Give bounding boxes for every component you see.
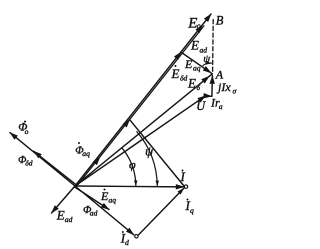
arc psi at vertex A [203, 63, 211, 66]
arrowhead B tip [204, 12, 214, 22]
arrowhead Phi_aq tip [93, 155, 103, 165]
svg-text:aq: aq [193, 64, 201, 73]
wire Phi_deltad parallel stroke [34, 151, 76, 184]
arrowhead jIx sigma tip [210, 75, 216, 84]
svg-text:a: a [219, 102, 223, 111]
arc phi angle [122, 148, 136, 185]
arrowhead Phi_ad / E_aq tip [101, 203, 111, 212]
arrowhead psi arc end [155, 181, 159, 187]
svg-text:U: U [196, 99, 206, 113]
arrowhead psi arc at A end [206, 61, 213, 65]
wire I_q parallelogram line from q-axis to I tip [130, 120, 184, 186]
svg-text:E: E [187, 76, 196, 91]
arrowhead I_q tip [123, 117, 133, 127]
arrowhead E_aq tip at A [203, 66, 213, 75]
wire E_delta line O to A [75, 74, 212, 186]
svg-text:jIx: jIx [216, 80, 231, 94]
wire dashed B to A construction line [212, 20, 215, 72]
svg-text:E: E [171, 66, 180, 81]
arrowhead E_ad lower-left tip [49, 205, 59, 215]
wire I_d tip to I tip (I_q component) [138, 188, 184, 235]
arrowhead I_q component into I [177, 186, 185, 194]
wire Phi_ad / E_aq parallel stroke [75, 187, 110, 210]
svg-text:ψ: ψ [145, 144, 154, 159]
svg-text:ad: ad [90, 209, 98, 218]
arrowhead I tip [176, 184, 185, 189]
svg-text:aq: aq [109, 196, 117, 205]
wire I horizontal line [75, 185, 183, 188]
wire U line [75, 96, 206, 186]
svg-text:o: o [197, 22, 201, 31]
wire q-axis parallel stroke (Phi_aq / I_q) [76, 26, 204, 187]
wire Ir_a segment [206, 95, 212, 98]
svg-text:aq: aq [82, 149, 90, 158]
wire E_aq segment from E_deltad tip to A [182, 53, 213, 74]
arrowhead U tip [197, 93, 207, 102]
wire I_d line [75, 186, 134, 235]
arc psi angle [137, 132, 157, 186]
arrowhead Phi_0 tip [8, 130, 18, 140]
svg-text:o: o [25, 127, 29, 136]
wire jIx sigma segment [211, 76, 214, 97]
svg-text:E: E [184, 57, 193, 71]
svg-text:E: E [190, 38, 199, 53]
svg-text:δ: δ [197, 83, 201, 92]
svg-text:δd: δd [25, 158, 33, 167]
arrowhead E_delta tip at A [201, 74, 211, 84]
arrowhead E_deltad tip [174, 50, 184, 60]
node I small circle [184, 185, 187, 188]
svg-text:d: d [125, 238, 129, 247]
svg-text:A: A [215, 68, 224, 82]
arrowhead I_d tip [126, 228, 136, 238]
wire Phi_0 d-axis line [10, 133, 75, 186]
svg-text:ψ: ψ [203, 53, 210, 65]
svg-text:B: B [216, 14, 224, 28]
arrowhead E_ad tip (E_0) [195, 23, 205, 33]
wire q-axis centerline O to B [75, 14, 211, 186]
svg-text:E: E [56, 208, 65, 223]
svg-text:φ: φ [129, 158, 136, 172]
arrowhead phi arc end [134, 180, 138, 186]
svg-text:σ: σ [233, 87, 237, 96]
svg-text:ad: ad [65, 215, 73, 224]
arrowhead Phi_deltad tip [32, 149, 42, 159]
svg-text:δd: δd [180, 73, 188, 82]
wire E_ad lower-left line [52, 186, 76, 213]
arrowhead Ir_a tip [203, 93, 212, 99]
svg-text:q: q [190, 206, 194, 215]
